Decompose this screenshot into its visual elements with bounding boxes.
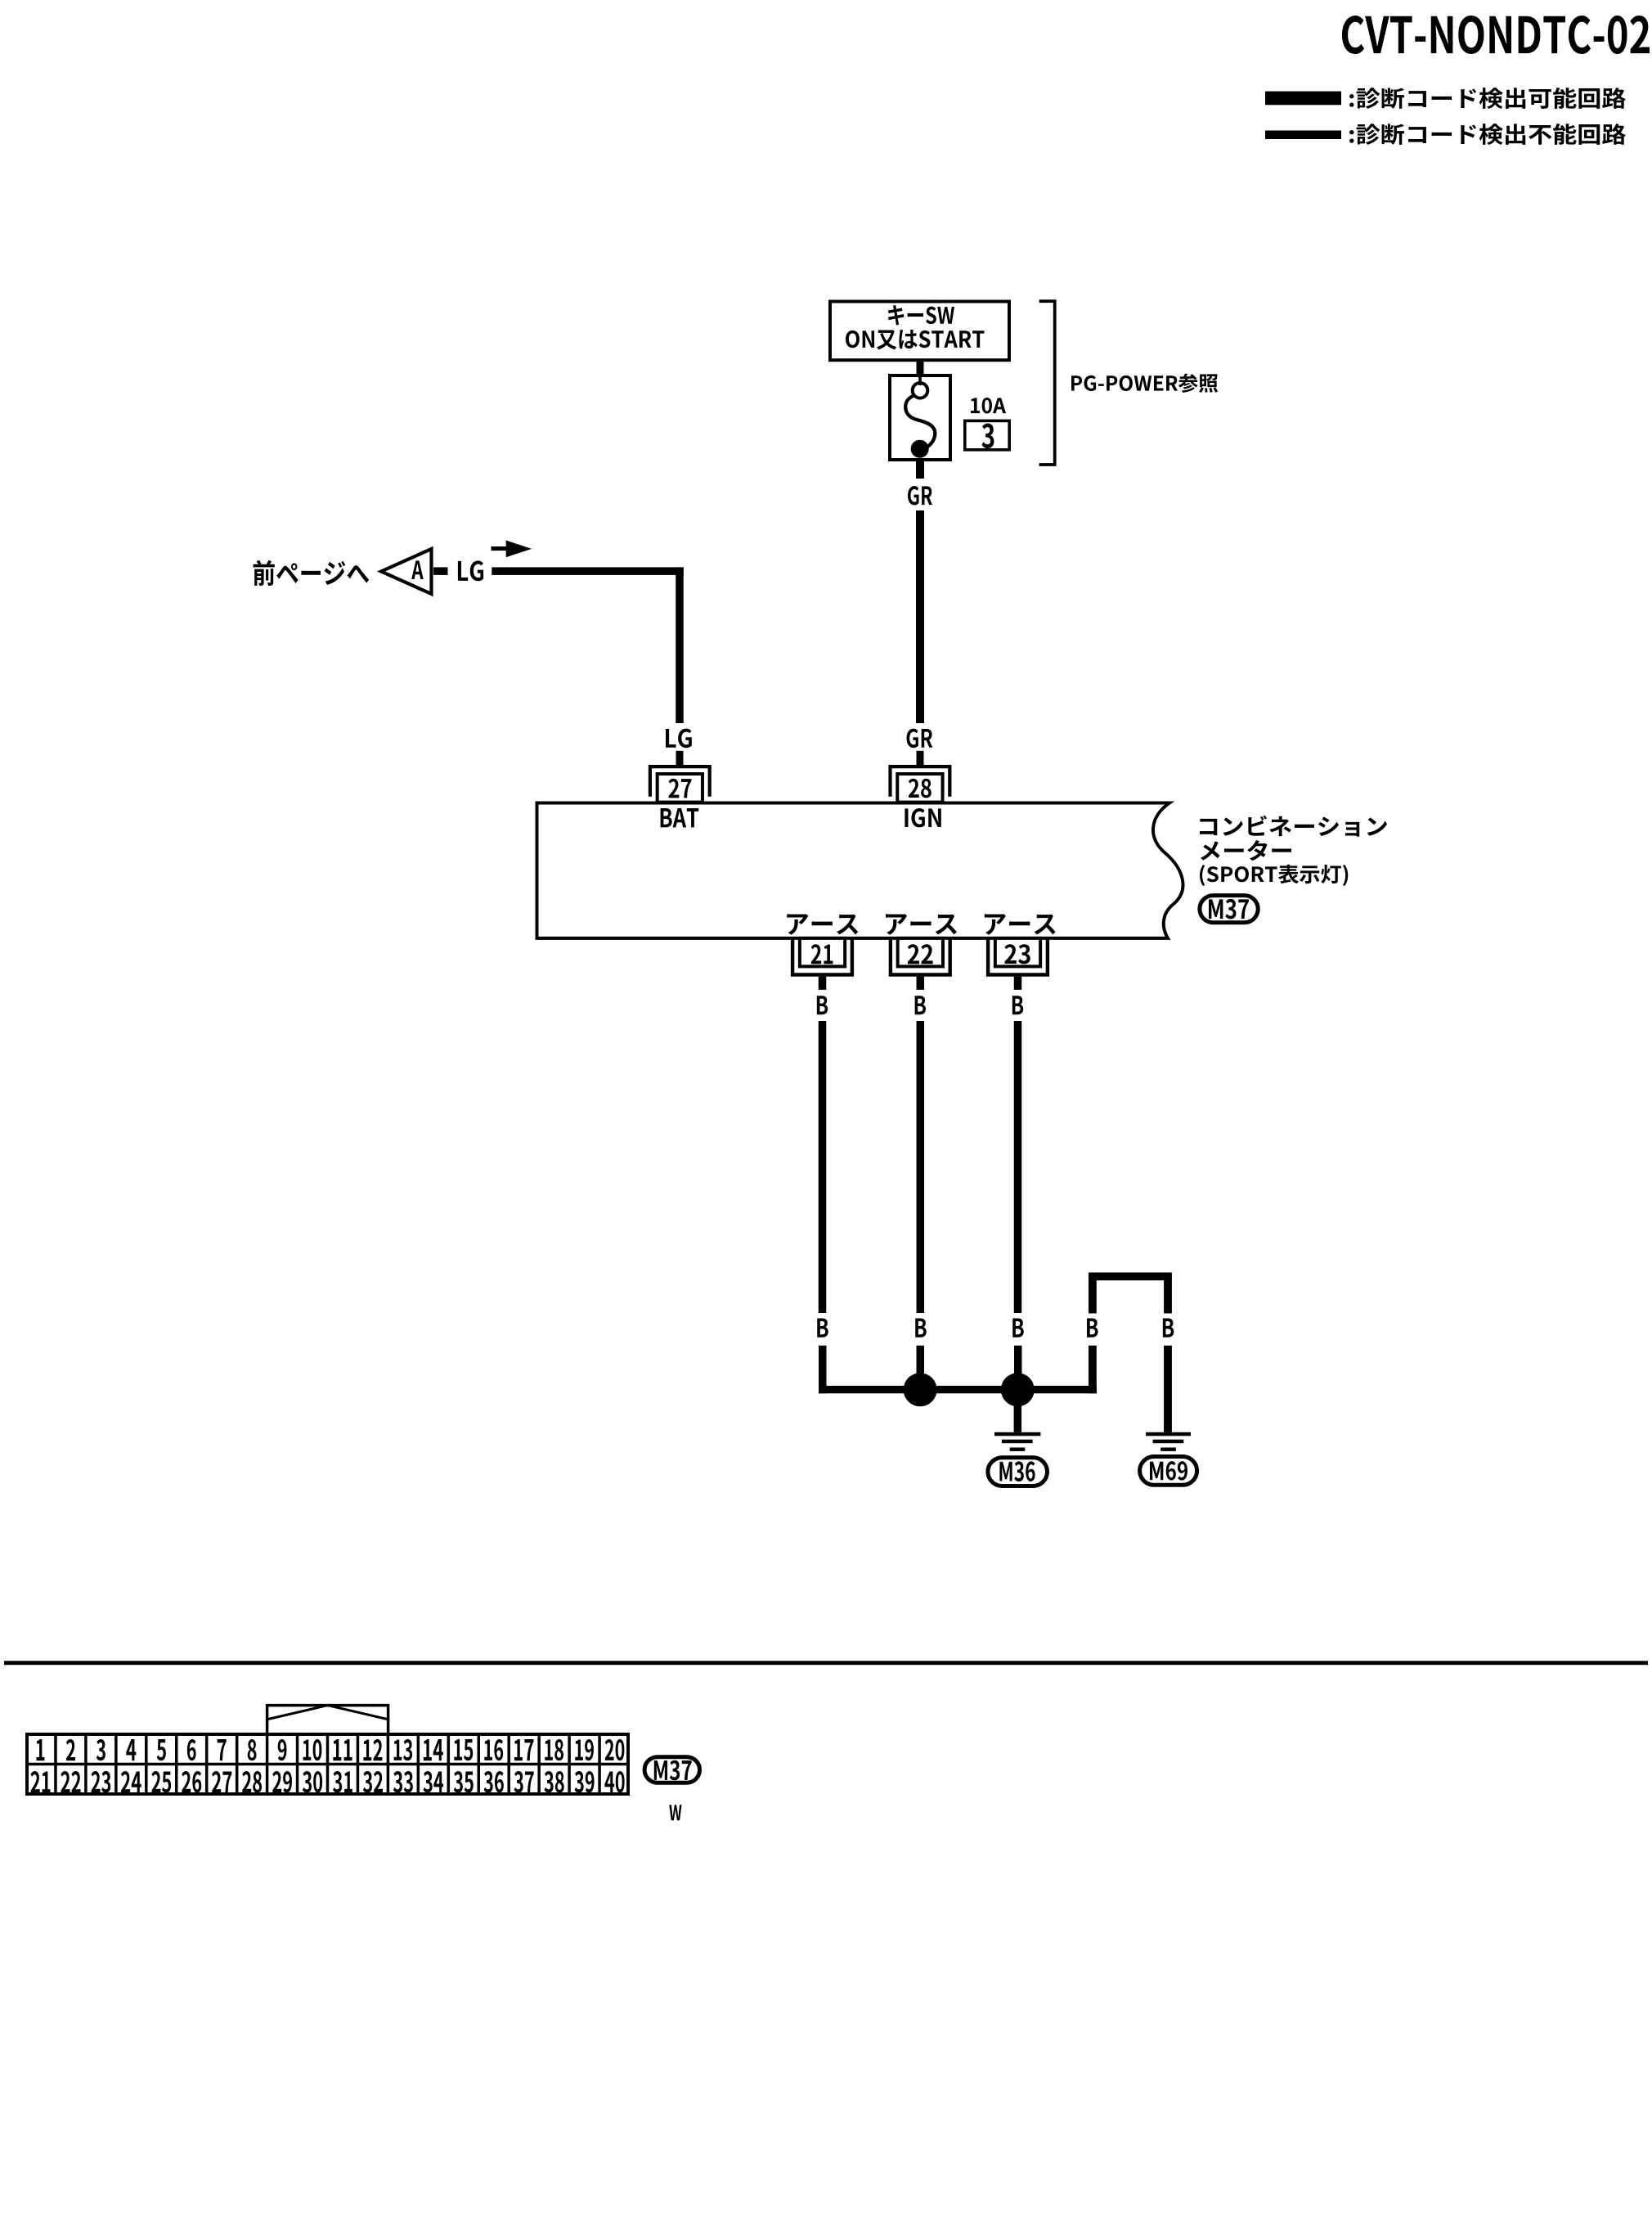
connector M37 pin grid [27, 1734, 628, 1794]
pin number 24 [121, 1771, 141, 1792]
legend thick-line symbol (DTC detectable circuit) [1265, 92, 1341, 106]
pin number 37 [514, 1771, 534, 1792]
pin number 39 [575, 1771, 595, 1792]
pin number 26 [182, 1771, 201, 1792]
combination meter M37 box [537, 803, 1183, 938]
fuse F3 10A [890, 374, 950, 460]
direction arrow [492, 541, 532, 558]
pin 23 [988, 937, 1048, 975]
separator line [4, 1661, 1648, 1665]
wire B vertical [1014, 1021, 1022, 1313]
wire from pin 21 down to ground bus [819, 1346, 827, 1394]
legend label 診断コード検出可能回路 [1349, 88, 1626, 109]
wire color label B [1087, 1319, 1098, 1338]
wire stub below pin 21 [819, 977, 827, 990]
pin number 36 [484, 1771, 504, 1792]
pin label アース (ground) above pin 22 [886, 914, 957, 934]
wire from pin 23 down to ground bus [1014, 1346, 1022, 1394]
meter label メーター [1201, 840, 1291, 861]
wire color label GR [908, 486, 932, 505]
pin number 16 [484, 1739, 503, 1760]
pin number 17 [514, 1739, 533, 1760]
pin 28 IGN [891, 767, 950, 803]
pin number 40 [604, 1771, 624, 1792]
pin number 22 [61, 1771, 80, 1792]
label PG-POWER参照 [1071, 374, 1218, 393]
pin name BAT [661, 808, 699, 827]
pin number 33 [393, 1771, 413, 1792]
pin number 14 [424, 1739, 443, 1760]
pin number 30 [303, 1771, 322, 1792]
pin number 13 [394, 1739, 413, 1760]
pin 22 [891, 937, 950, 975]
wire color label B [1012, 996, 1023, 1014]
wire color label B [1012, 1319, 1023, 1338]
pin label アース (ground) above pin 23 [985, 914, 1056, 934]
meter label コンビネーション [1200, 816, 1387, 837]
pin number 38 [545, 1771, 564, 1792]
fuse rating label 10A [971, 398, 1006, 413]
junction node (pin 22 wire) [904, 1373, 937, 1406]
connector designator M37 oval [1200, 896, 1258, 923]
pin number 15 [454, 1739, 473, 1760]
pin number 18 [545, 1739, 563, 1760]
pin number 21 [30, 1771, 50, 1792]
ground symbol M69 [1146, 1432, 1191, 1451]
pin number 28 [242, 1771, 262, 1792]
title CVT-NONDTC-02 [1342, 16, 1650, 54]
wire stub below pin 22 [917, 977, 925, 990]
pin number 8 [248, 1739, 257, 1760]
pin number 7 [218, 1739, 227, 1760]
pin number 3 [97, 1739, 105, 1760]
label 前ページへ (to previous page) [254, 560, 370, 586]
pin number 34 [424, 1771, 443, 1792]
ground bus wire [819, 1386, 1097, 1393]
pin 27 BAT [650, 767, 710, 803]
wire color label B [1163, 1319, 1174, 1338]
pin 21 [792, 937, 852, 975]
pin number 4 [126, 1739, 136, 1760]
wire from pin 22 down to ground bus [917, 1346, 925, 1394]
wire junction to ground M36 [1014, 1404, 1022, 1432]
wire color label LG at pin 27 [666, 729, 692, 749]
legend thin-line symbol (DTC undetectable circuit) [1265, 131, 1341, 140]
jumper wire over to ground M69 [1089, 1273, 1172, 1314]
pin number 5 [157, 1739, 166, 1760]
connector color label W [669, 1805, 681, 1820]
wire color label B [915, 996, 926, 1014]
pin number 10 [303, 1739, 322, 1760]
pin number 12 [363, 1739, 382, 1760]
pin number 1 [36, 1739, 44, 1760]
pin number 20 [605, 1739, 625, 1760]
wire stub into pin 28 [917, 751, 924, 766]
legend label 診断コード検出不能回路 [1349, 124, 1626, 145]
pin name IGN [905, 808, 940, 827]
pin number 19 [575, 1739, 594, 1760]
pin number 32 [363, 1771, 383, 1792]
pin number 2 [66, 1739, 75, 1760]
pin number 6 [187, 1739, 196, 1760]
pin number 31 [333, 1771, 352, 1792]
wire B vertical [819, 1021, 827, 1313]
pin label アース (ground) above pin 21 [787, 914, 858, 934]
pin number 29 [272, 1771, 292, 1792]
wire color label GR at pin 28 [907, 729, 933, 749]
off-page connector triangle A [381, 549, 448, 594]
bracket for PG-POWER reference [1039, 301, 1055, 465]
pin number 25 [151, 1771, 171, 1792]
wire from key switch box to fuse [917, 360, 924, 375]
wire LG from triangle to connector 27 [492, 567, 683, 723]
power source box キーSW ON又はSTART [830, 302, 1009, 361]
wire color label B [817, 1319, 828, 1338]
ground designator M36 oval [988, 1458, 1048, 1486]
wire jumper leg down to ground M69 [1164, 1346, 1172, 1432]
meter label (SPORT表示灯) [1200, 865, 1348, 886]
wire jumper leg down to ground bus [1089, 1346, 1097, 1394]
junction node (pin 23 wire) [1001, 1373, 1035, 1406]
pin number 35 [454, 1771, 474, 1792]
pin number 27 [212, 1771, 231, 1792]
wire stub into pin 27 [676, 751, 684, 766]
wire stub below pin 23 [1014, 977, 1022, 990]
connector designator M37 oval (footer) [644, 1757, 699, 1783]
fuse number box 3 [965, 420, 1009, 449]
pin number 11 [333, 1739, 352, 1760]
connector clip mark above cells 9-12 [267, 1706, 388, 1734]
wire color label B [915, 1319, 926, 1338]
pin number 9 [278, 1739, 287, 1760]
wire color label B [817, 996, 828, 1014]
wire fuse to GR label [916, 460, 924, 479]
ground designator M69 oval [1140, 1457, 1197, 1486]
ground symbol M36 [994, 1432, 1040, 1451]
pin number 23 [92, 1771, 111, 1792]
wire color label LG [458, 560, 483, 581]
wire GR down to connector 28 [916, 510, 924, 723]
wire B vertical [917, 1021, 925, 1313]
